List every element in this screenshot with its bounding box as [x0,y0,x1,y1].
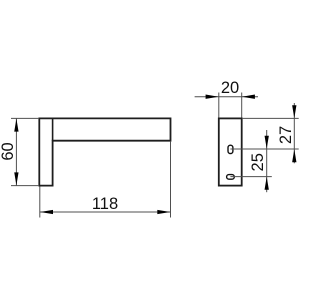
dimension 60 label [0,142,17,160]
side view inner edge (plate/arm joint) [52,118,54,140]
lower mounting slot (horizontal) [227,175,235,180]
dimension 20 extension line right [241,93,243,118]
svg-text:20: 20 [221,79,239,97]
svg-text:60: 60 [0,142,17,160]
dimension 60 arrow down [14,172,18,185]
dimension 20 arrow pointing left [242,95,255,99]
dimension 25 arrow down [265,136,269,149]
dimension 118 line [40,211,171,213]
dimension 60 line [15,118,17,185]
dimension 118 label [92,195,118,213]
end view plate outline [219,118,242,185]
upper mounting slot (vertical) [228,145,233,153]
dimension 27 arrow up [292,149,296,162]
dimension 27 arrow down [292,105,296,118]
dimension 25 arrow up [265,177,269,190]
side view outline (L-shaped bracket) [39,118,170,185]
dimension 60 arrow up [14,119,18,132]
extension line from plate top edge [242,117,299,119]
dimension 27 line [293,103,295,163]
dimension 118 extension line right [170,142,172,218]
dimension 118 arrow right [157,210,170,214]
dimension 118 extension line left [39,187,41,218]
dimension 27 label [277,126,295,144]
extension line from upper slot [230,148,298,150]
dimension 20 line [195,96,258,98]
svg-text:27: 27 [277,126,295,144]
dimension 60 extension line top [11,117,39,119]
dimension 20 arrow pointing right [206,95,219,99]
dimension 25 label [249,153,267,171]
svg-text:25: 25 [249,153,267,171]
dimension 20 extension line left [218,93,220,118]
dimension 118 arrow left [40,210,53,214]
dimension 20 label [221,79,239,97]
dimension 60 extension line bottom [11,185,39,187]
svg-text:118: 118 [92,195,118,213]
dimension 25 line [266,130,268,192]
extension line from lower slot [230,176,271,178]
